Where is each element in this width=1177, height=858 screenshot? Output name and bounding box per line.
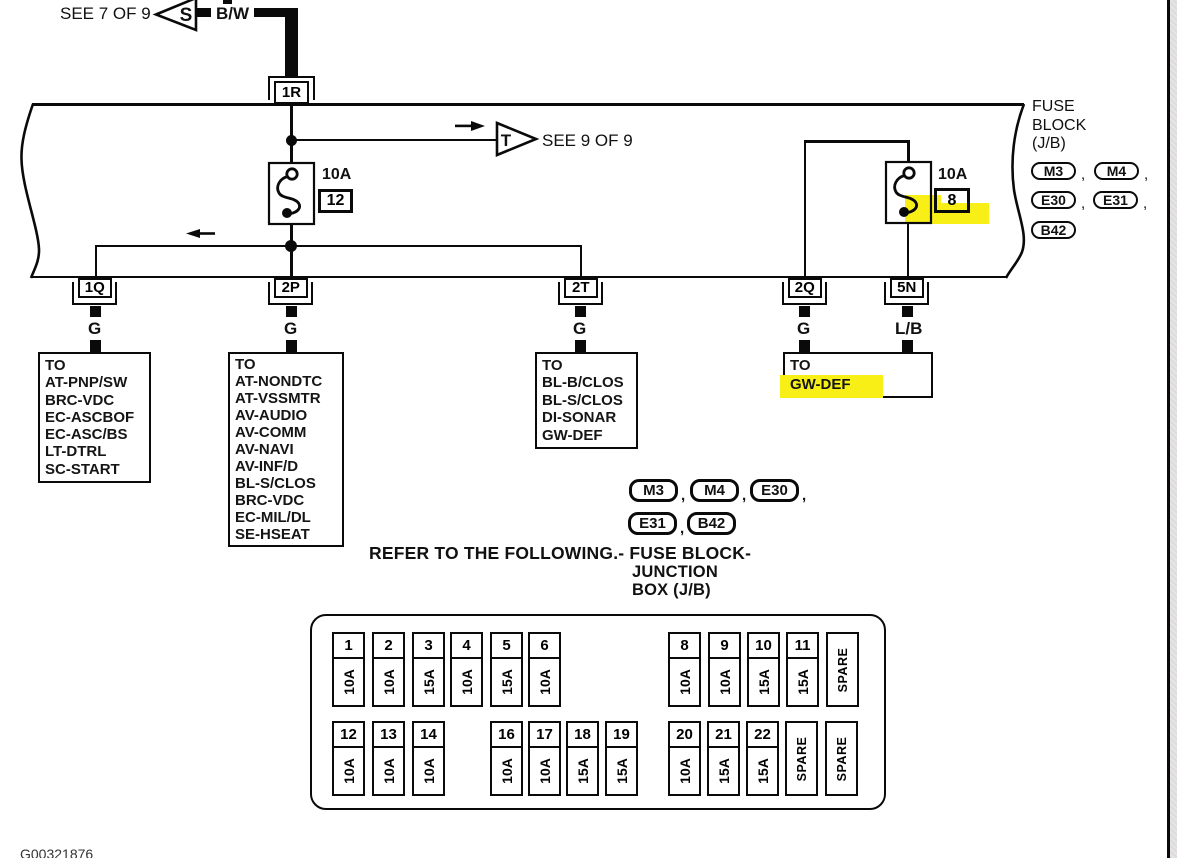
fuse block torn right edge — [998, 102, 1032, 280]
note JUNCTION — [632, 563, 718, 582]
fuse block bottom edge — [31, 276, 1006, 279]
connector 2T — [553, 277, 610, 307]
label SEE 7 OF 9 — [60, 4, 151, 24]
wire down into fuse F8 — [907, 140, 910, 163]
fuse slot 8 (10A) — [668, 632, 701, 707]
wire 1R to fuse F12 — [290, 105, 293, 171]
fuse panel outline — [310, 614, 886, 810]
wire node B to 2P — [290, 246, 293, 277]
junction node B — [285, 240, 297, 252]
terminal pad at S — [197, 8, 211, 17]
comma — [680, 520, 684, 537]
destination list 4 (from 2Q and 5N) — [783, 352, 933, 398]
fuse block torn left edge — [14, 102, 44, 280]
pigtail 1Q — [90, 306, 101, 317]
flow arrow right — [453, 119, 487, 133]
fuse slot 19 (15A) — [605, 721, 638, 796]
connector ref E30 (center list) — [750, 479, 799, 502]
wire thick B/W vertical — [285, 8, 298, 77]
connector ref E31 (right list) — [1093, 191, 1138, 209]
comma — [1143, 195, 1147, 212]
bus wire to 1Q and 2T — [95, 245, 581, 248]
wire fuse F8 to 5N — [907, 224, 910, 277]
fuse slot 21 (15A) — [707, 721, 740, 796]
comma — [1081, 166, 1085, 183]
fuse number 12 — [318, 189, 353, 213]
pigtail to list 4 right — [902, 340, 913, 352]
comma — [742, 487, 746, 504]
label FUSE BLOCK (J/B) — [1032, 98, 1086, 154]
fuse slot 4 (10A) — [450, 632, 483, 707]
wire color G (2Q) — [797, 319, 810, 339]
pigtail to list 4 left — [799, 340, 810, 352]
connector ref B42 (center list) — [687, 512, 736, 535]
fuse F8 — [883, 158, 935, 228]
stray cropped glyph top edge — [223, 0, 232, 4]
note REFER TO THE FOLLOWING — [369, 543, 751, 564]
off-page connector S (to 7 of 9) — [150, 0, 206, 36]
wire label B/W — [216, 4, 249, 24]
fuse slot 6 (10A) — [528, 632, 561, 707]
destination list 2 (from 2P) — [228, 352, 344, 547]
spare slot row2 a — [785, 721, 818, 796]
wire node A to T — [291, 139, 498, 142]
fuse slot 13 (10A) — [372, 721, 405, 796]
wire thick B/W horizontal — [254, 8, 298, 17]
figure number G00321876 — [20, 846, 93, 858]
value 10A (F12) — [322, 166, 351, 184]
fuse slot 9 (10A) — [708, 632, 741, 707]
fuse slot 22 (15A) — [746, 721, 779, 796]
fuse slot 11 (15A) — [786, 632, 819, 707]
connector ref M4 (center list) — [690, 479, 739, 502]
pigtail 2Q — [799, 306, 810, 317]
fuse slot 2 (10A) — [372, 632, 405, 707]
pigtail 5N — [902, 306, 913, 317]
fuse slot 10 (15A) — [747, 632, 780, 707]
wire drop to 1Q — [95, 245, 98, 277]
fuse slot 16 (10A) — [490, 721, 523, 796]
connector ref M3 (right list) — [1031, 162, 1076, 180]
scanned page edge strip — [1170, 0, 1177, 858]
label SEE 9 OF 9 — [542, 131, 633, 151]
fuse slot 5 (15A) — [490, 632, 523, 707]
scanned page edge line — [1167, 0, 1170, 858]
connector 1Q — [67, 277, 124, 307]
fuse slot 17 (10A) — [528, 721, 561, 796]
connector ref M3 (center list) — [629, 479, 678, 502]
junction node A — [286, 135, 297, 146]
wire color L/B (5N) — [895, 319, 922, 339]
connector ref M4 (right list) — [1094, 162, 1139, 180]
wire color G (2T) — [573, 319, 586, 339]
value 10A (F8) — [938, 166, 967, 184]
connector ref E30 (right list) — [1031, 191, 1076, 209]
wire 2Q riser — [804, 140, 807, 277]
svg-text:T: T — [501, 131, 512, 150]
comma — [802, 487, 806, 504]
pigtail to list 1 — [90, 340, 101, 352]
destination list 1 (from 1Q) — [38, 352, 151, 483]
pigtail 2P — [286, 306, 297, 317]
wire drop to 2T — [580, 245, 583, 277]
wire color G (1Q) — [88, 319, 101, 339]
fuse slot 14 (10A) — [412, 721, 445, 796]
connector ref B42 (right list) — [1031, 221, 1076, 239]
highlight GW-DEF — [780, 375, 883, 398]
connector 2Q — [777, 277, 834, 307]
fuse block top edge — [32, 103, 1024, 106]
fuse number 8 — [934, 188, 970, 213]
connector 2P — [263, 277, 320, 307]
flow arrow left — [185, 227, 217, 240]
off-page connector T (to 9 of 9) — [494, 119, 540, 161]
wire fuse F12 to node B — [290, 224, 293, 246]
connector 5N — [879, 277, 936, 307]
note BOX (J/B) — [632, 581, 711, 600]
comma — [681, 487, 685, 504]
comma — [1081, 195, 1085, 212]
fuse slot 3 (15A) — [412, 632, 445, 707]
connector ref E31 (center list) — [628, 512, 677, 535]
fuse F12 — [266, 159, 318, 229]
fuse slot 1 (10A) — [332, 632, 365, 707]
connector 1R — [262, 75, 322, 106]
svg-text:S: S — [180, 5, 193, 26]
pigtail to list 2 — [286, 340, 297, 352]
comma — [1144, 166, 1148, 183]
fuse slot 12 (10A) — [332, 721, 365, 796]
wire across to fuse F8 — [804, 140, 909, 143]
pigtail to list 3 — [575, 340, 586, 352]
fuse slot 20 (10A) — [668, 721, 701, 796]
destination list 3 (from 2T) — [535, 352, 638, 449]
highlight over fuse 8 area — [905, 195, 941, 222]
pigtail 2T — [575, 306, 586, 317]
wire color G (2P) — [284, 319, 297, 339]
spare slot row1 — [826, 632, 859, 707]
fuse slot 18 (15A) — [566, 721, 599, 796]
spare slot row2 b — [825, 721, 858, 796]
